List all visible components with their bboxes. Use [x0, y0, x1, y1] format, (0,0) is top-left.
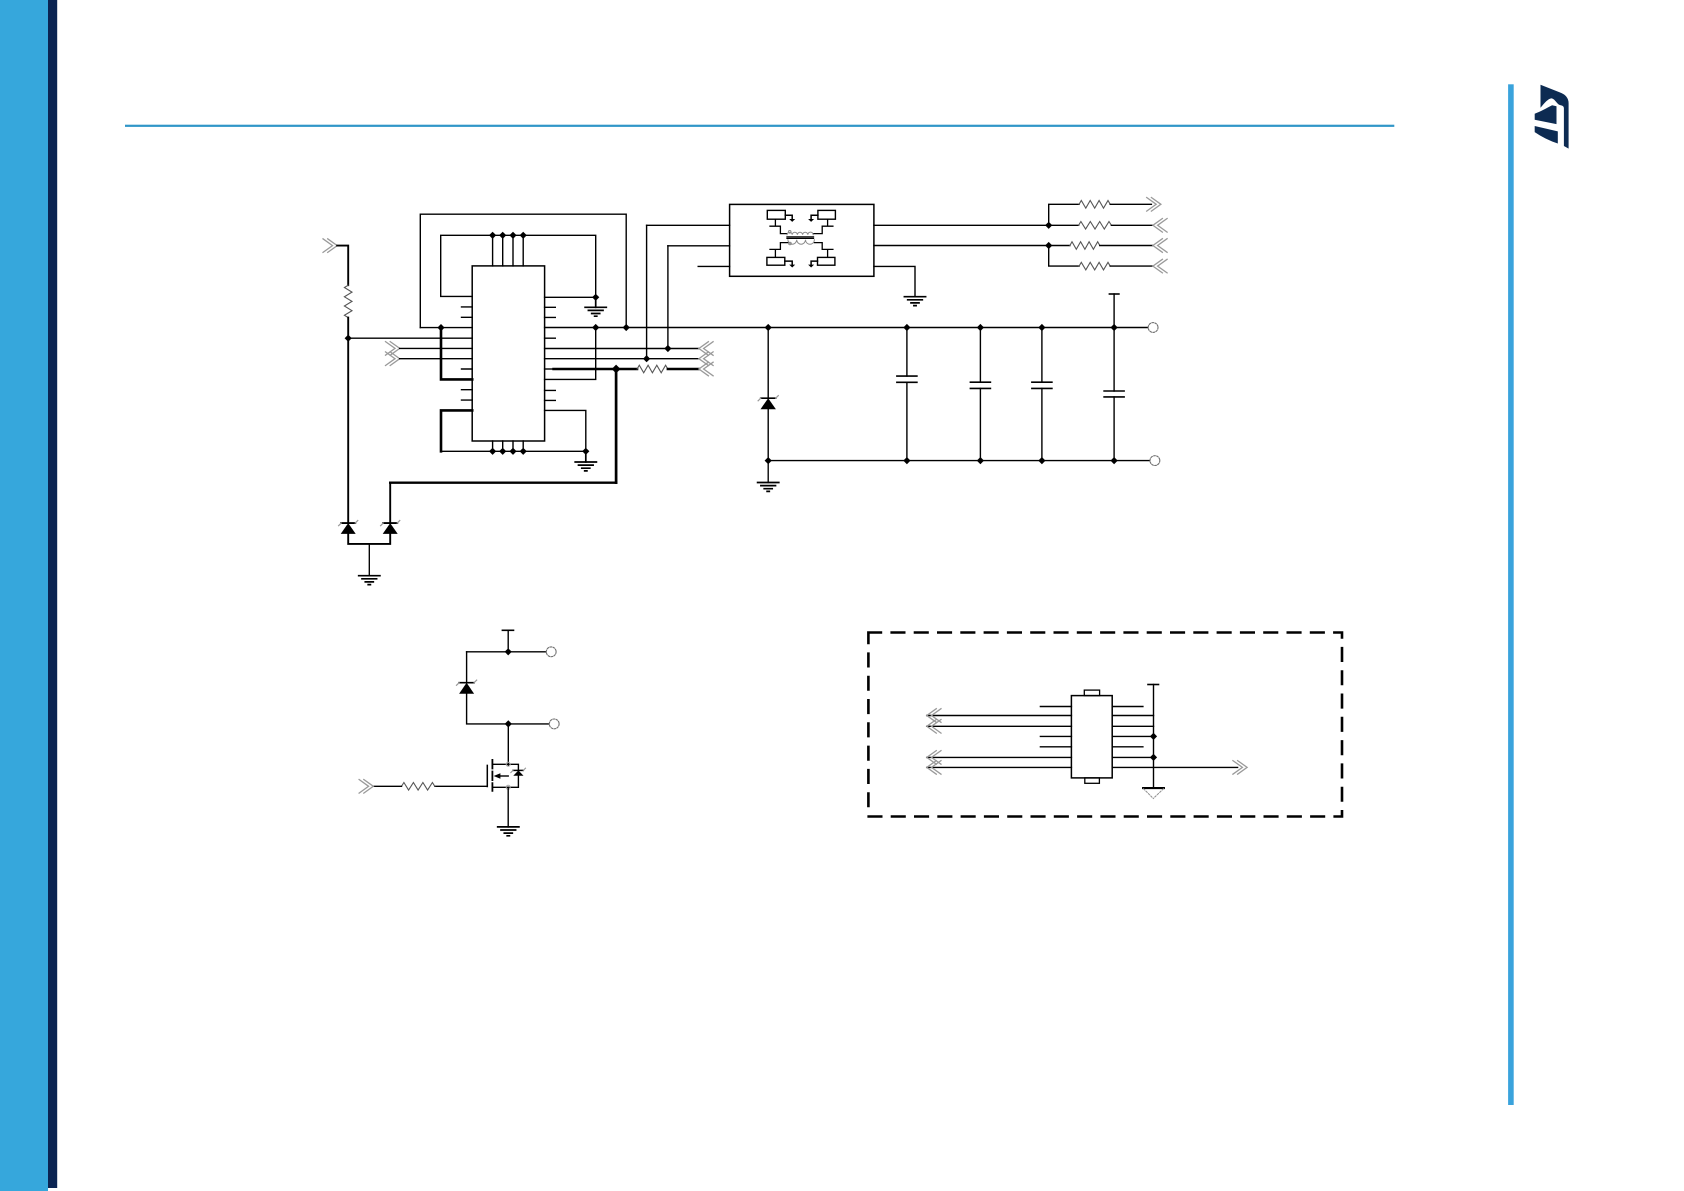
- wire: top rail: [467, 651, 547, 653]
- connector chevron top-left input: [323, 239, 337, 253]
- ground G4: [359, 544, 380, 585]
- wire: thick bracket lower-left: [441, 410, 472, 451]
- wire array row2 out: [1111, 224, 1153, 226]
- wire: outer top loop around U1: [420, 214, 626, 327]
- op-amp U2 (IC in dashed box): [1071, 696, 1112, 778]
- T1 interior: core bars: [787, 237, 814, 239]
- wire: U1 top pin legs: [493, 235, 524, 266]
- node dot: [505, 648, 512, 655]
- node dot mid: [505, 720, 512, 727]
- T1 interior: arrow BR: [811, 261, 817, 265]
- wire: drain vertical: [507, 724, 509, 765]
- wire: thick net horizontal: [390, 482, 616, 484]
- wire: left vertical down to D1: [347, 318, 349, 523]
- node: dot thick: [612, 365, 621, 374]
- node dot row6: [664, 345, 671, 352]
- wire: row5 from left vertical to U1: [348, 337, 472, 339]
- diode D4 (zener) leads: [767, 328, 769, 461]
- diode D3 (zener): [457, 680, 477, 694]
- left page band navy: [48, 0, 57, 1188]
- T1 interior: arrow TL: [785, 215, 792, 219]
- wire array row3 out: [1100, 245, 1153, 247]
- T1 interior: driver block BR: [818, 257, 835, 265]
- T1 interior: primary winding: [787, 232, 813, 235]
- wire: row7 right: [545, 358, 699, 360]
- wire: T1 right pin2: [874, 245, 1049, 247]
- node dot array row2: [1045, 222, 1052, 229]
- terminal circle bus right: [1148, 323, 1158, 333]
- ground G2: [904, 297, 925, 306]
- connector chevrons U2 left: [927, 709, 941, 775]
- wire array row2 lead: [1049, 224, 1079, 226]
- wire: U1 bottom pin legs: [493, 441, 524, 451]
- wire row7: [400, 358, 473, 360]
- wire: T1 left pin1: [647, 224, 730, 226]
- node dots on vertical: [1150, 733, 1157, 740]
- wire: T1 left pin3 stub: [698, 265, 729, 267]
- terminal circle top: [546, 647, 556, 657]
- resistor R2: [637, 365, 668, 373]
- wire: row9 thick from U1: [545, 368, 554, 370]
- U2 right wires: [1112, 716, 1237, 768]
- wire: T1 right pin1: [874, 224, 1049, 226]
- node: bottom pin dots: [489, 448, 589, 455]
- wire array row3-row4 vertical: [1049, 246, 1079, 267]
- capacitor C1: [906, 328, 908, 461]
- connector chevron row9 right: [699, 362, 713, 376]
- capacitor C3: [1041, 328, 1043, 461]
- transistor Q1 (N-MOSFET): [487, 760, 525, 791]
- node: bottom bus dots: [765, 457, 1118, 464]
- diode D2 (zener): [381, 521, 400, 534]
- T1 interior: polarity dots: [788, 231, 791, 234]
- wire array row3 lead: [1049, 245, 1070, 247]
- terminal circle mid: [549, 719, 559, 729]
- node: bus dots: [592, 324, 1118, 331]
- wire: gate lead: [373, 785, 401, 787]
- wire row6: [400, 347, 473, 349]
- node: dot left vertical row5: [345, 335, 352, 342]
- connector chevron row7: [386, 352, 400, 366]
- dashed box: [868, 633, 1342, 817]
- ST logo: [1535, 85, 1569, 149]
- T1 interior: stair BR: [814, 243, 833, 258]
- connector chevron array row1: [1147, 198, 1161, 212]
- resistor R3: [1079, 201, 1110, 209]
- wire: row6 right: [545, 348, 699, 350]
- ground G6: [498, 827, 519, 836]
- wire: main bus left of U1: [420, 327, 472, 329]
- wire array row4 out: [1110, 265, 1153, 267]
- wire: D2 cathode up to thick net: [389, 483, 391, 523]
- capacitor C4 with top tick: [1109, 293, 1119, 295]
- wire: inner top net to U1 pin row1: [441, 235, 596, 297]
- wire: T1 right pin3 to ground: [874, 266, 915, 296]
- T1 interior: stair BL: [770, 243, 788, 258]
- wire: left input net: [337, 246, 348, 286]
- wire: row9 to chevron: [668, 368, 699, 370]
- wire: vertical from T1 left pin2 to row6: [667, 246, 669, 349]
- ground triangle: [1143, 787, 1164, 789]
- resistor R7: [402, 783, 435, 791]
- connector chevron array row2: [1153, 219, 1167, 233]
- U2 left stubs: [1040, 707, 1071, 747]
- T1 interior: driver block TL: [767, 210, 785, 219]
- wire: right bracket to bottom net: [545, 410, 586, 451]
- T1 interior: arrow TR: [811, 215, 818, 219]
- resistor R5: [1070, 242, 1100, 250]
- wire: source to ground: [507, 787, 509, 827]
- T1 interior: stair TL: [770, 219, 787, 233]
- T1 interior: arrow BL: [785, 261, 792, 265]
- connector chevron array row3: [1153, 239, 1167, 253]
- resistor R6: [1079, 262, 1110, 270]
- resistor R4: [1079, 222, 1112, 230]
- ground G1: [585, 297, 606, 316]
- wire: main bus right of U1: [545, 327, 1149, 329]
- U1 left pin stubs: [462, 307, 473, 400]
- node: top pin junction dots: [489, 232, 599, 301]
- ground G5: [758, 461, 779, 492]
- top header rule: [125, 125, 1394, 127]
- connector chevron row6: [386, 342, 400, 356]
- T1 interior: driver block TR: [818, 210, 836, 219]
- wire: D3 anode down and to mid rail: [467, 694, 550, 724]
- wire: into D3: [466, 652, 468, 683]
- wire: thick net vertical: [615, 369, 618, 483]
- connector chevron row6 right: [699, 342, 713, 356]
- wire: thick bracket upper-left: [441, 328, 472, 380]
- supply tick: [502, 629, 513, 631]
- wire: D1 anode to join: [348, 534, 390, 544]
- wire: row10 up to bus: [545, 328, 596, 380]
- connector chevron gate: [359, 780, 373, 794]
- right vertical rule: [1508, 84, 1514, 1105]
- wire: gate: [435, 785, 488, 787]
- wire: T1 left pin2: [668, 245, 730, 247]
- node: bus dot at bracket: [437, 324, 444, 331]
- node dot row7: [643, 355, 650, 362]
- left page band light blue: [0, 0, 48, 1191]
- U1 right pin stubs: [545, 307, 556, 400]
- connector chevron array row4: [1153, 259, 1167, 273]
- wire: bottom bus: [768, 460, 1150, 462]
- resistor R1: [344, 285, 352, 317]
- T1 interior: stair TR: [813, 219, 833, 233]
- wire array row1 out: [1110, 203, 1151, 205]
- supply tick U2: [1148, 684, 1159, 686]
- wire: U2 vcc/gnd vertical: [1153, 685, 1155, 789]
- ground G3: [575, 451, 596, 471]
- connector chevron U2 right out: [1233, 761, 1247, 775]
- U2 left wires: [927, 716, 1072, 768]
- T1 interior: driver block BL: [767, 257, 785, 265]
- T1 interior: secondary winding: [788, 240, 815, 244]
- wire: U1 bottom net: [441, 450, 586, 452]
- resistor array corner wire R3: [1049, 204, 1079, 225]
- connector chevron row7 right: [699, 352, 713, 366]
- op-amp U1 (main IC body): [472, 266, 544, 441]
- U2 right stubs: [1112, 707, 1143, 747]
- wire: vertical from T1 left pin1 to row7: [646, 225, 648, 358]
- terminal circle bottom bus: [1150, 456, 1160, 466]
- node dot array row3: [1045, 242, 1052, 249]
- diode D1 (zener): [339, 521, 358, 534]
- capacitor C2: [979, 328, 981, 461]
- transformer T1 box: [730, 204, 874, 276]
